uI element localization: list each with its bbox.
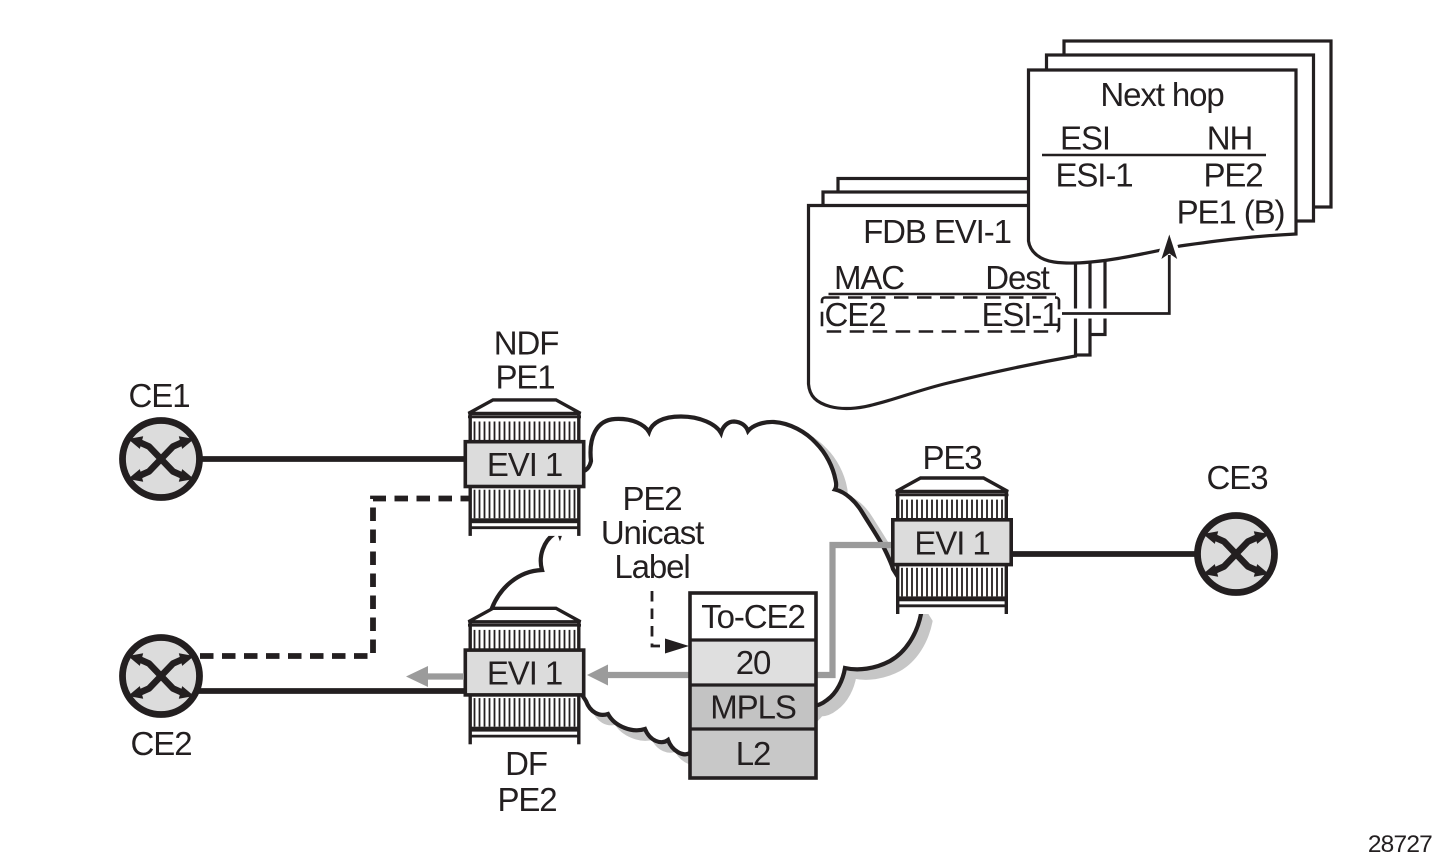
svg-text:PE2: PE2	[622, 480, 681, 517]
router PE3	[893, 478, 1011, 614]
svg-text:CE2: CE2	[825, 296, 886, 333]
Next hop front page	[1029, 70, 1297, 263]
Next hop header underline	[1042, 154, 1266, 157]
svg-text:CE2: CE2	[131, 725, 192, 762]
svg-text:ESI-1: ESI-1	[1055, 157, 1132, 194]
svg-text:Next hop: Next hop	[1100, 76, 1223, 113]
dashed pointer to label 20	[652, 591, 663, 646]
arrowhead halo	[1161, 235, 1177, 260]
MPLS cloud	[492, 417, 921, 755]
gray unicast path PE3 to PE2 via label stack	[600, 545, 893, 675]
svg-text:EVI 1: EVI 1	[487, 446, 562, 483]
arrowhead to Next hop	[1161, 235, 1177, 260]
svg-text:28727: 28727	[1368, 831, 1432, 858]
svg-text:NH: NH	[1207, 120, 1252, 157]
Next hop page stack back page 3	[1064, 41, 1331, 207]
svg-text:L2: L2	[736, 735, 771, 772]
svg-text:DF: DF	[505, 745, 547, 782]
svg-text:Unicast: Unicast	[601, 514, 704, 551]
svg-text:ESI: ESI	[1060, 120, 1110, 157]
CE3 node	[1198, 516, 1275, 593]
svg-text:NDF: NDF	[494, 325, 559, 362]
CE1 node	[123, 421, 200, 498]
svg-text:PE2: PE2	[1203, 157, 1262, 194]
svg-text:PE1 (B): PE1 (B)	[1177, 194, 1285, 231]
FDB front page	[809, 206, 1076, 409]
svg-text:Dest: Dest	[985, 259, 1049, 296]
FDB row dashed highlight box	[822, 298, 1059, 332]
svg-text:20: 20	[736, 644, 771, 681]
gray arrow PE2 to CE2 line	[428, 673, 464, 679]
svg-text:MPLS: MPLS	[710, 689, 796, 726]
FDB page stack back page 2	[823, 192, 1090, 355]
FDB header underline	[829, 293, 1057, 296]
router PE2	[465, 608, 583, 744]
svg-text:CE1: CE1	[129, 377, 190, 414]
FDB page stack back page 3	[838, 179, 1105, 335]
gray arrow into PE2	[587, 665, 608, 686]
MPLS cloud shadow	[501, 424, 930, 762]
svg-text:PE1: PE1	[495, 359, 554, 396]
dashed standby link CE2-PE1	[200, 499, 469, 657]
svg-text:FDB EVI-1: FDB EVI-1	[863, 213, 1011, 250]
CE2 node	[123, 638, 200, 715]
link CE2-PE2	[161, 688, 470, 694]
svg-text:EVI 1: EVI 1	[487, 655, 562, 692]
svg-text:ESI-1: ESI-1	[981, 296, 1058, 333]
link PE3-CE3	[1005, 551, 1236, 557]
gray arrow PE2 to CE2 head	[406, 666, 428, 687]
svg-text:Label: Label	[614, 548, 689, 585]
svg-text:PE3: PE3	[922, 439, 981, 476]
label stack table	[690, 593, 816, 778]
svg-text:To-CE2: To-CE2	[701, 598, 804, 635]
svg-text:MAC: MAC	[834, 259, 904, 296]
Next hop page stack back page 2	[1047, 55, 1314, 221]
svg-text:PE2: PE2	[497, 781, 556, 818]
svg-text:CE3: CE3	[1207, 459, 1268, 496]
link CE1-PE1	[161, 456, 470, 462]
arrow ESI-1 to Next hop	[1062, 255, 1169, 314]
svg-text:EVI 1: EVI 1	[914, 525, 989, 562]
arrow ESI-1 to Next hop white casing	[1066, 258, 1169, 314]
pointer arrowhead	[665, 639, 689, 654]
router PE1	[465, 400, 583, 536]
